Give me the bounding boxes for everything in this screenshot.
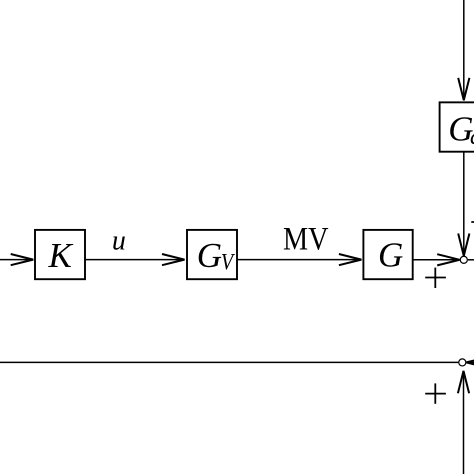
svg-text:u: u	[112, 225, 126, 256]
arrowhead into block Gd	[458, 78, 469, 100]
wire: measured output feedback line (long horizontal)	[0, 361, 458, 363]
summing junction (process output y)	[460, 256, 467, 263]
svg-text:G: G	[378, 236, 403, 275]
plus label for noise input	[425, 383, 446, 403]
block Gd	[440, 102, 474, 151]
arrowhead into measurement node (from right)	[466, 357, 474, 368]
wire: setpoint input into K	[0, 259, 33, 261]
arrowhead into block G	[339, 254, 362, 265]
arrowhead into block Gv	[162, 254, 185, 265]
wire: noise input n (bottom vertical)	[463, 372, 465, 474]
block Gv	[187, 230, 237, 279]
arrowhead into block K	[11, 254, 34, 265]
arrowhead into summing junction (from G)	[437, 254, 460, 265]
plus label for process path	[425, 268, 446, 288]
wire: K to Gv	[85, 259, 185, 261]
svg-text:K: K	[48, 236, 74, 275]
block G	[363, 230, 412, 279]
measurement node circle	[459, 359, 466, 366]
arrowhead into summing junction (from Gd)	[458, 234, 469, 256]
plus label for disturbance input (clipped at right edge)	[471, 212, 474, 232]
svg-text:Gd: Gd	[448, 110, 474, 149]
wire: Gv to G	[237, 259, 361, 261]
svg-text:MV: MV	[283, 221, 329, 257]
wire: disturbance input d (top vertical)	[463, 0, 465, 99]
block K	[35, 230, 85, 279]
wire: from right edge into measurement node	[466, 361, 474, 363]
wire: Gd to summing junction	[463, 152, 465, 253]
arrowhead of noise input (pointing up)	[458, 371, 469, 393]
wire: junction output to right edge	[468, 259, 474, 261]
wire: G to summing junction	[413, 259, 460, 261]
